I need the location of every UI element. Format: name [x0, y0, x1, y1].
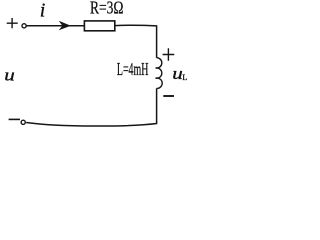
svg-text:L: L [182, 72, 187, 82]
uL polarity − sign [163, 95, 174, 97]
svg-text:i: i [40, 0, 46, 22]
current arrow [59, 21, 71, 31]
resistor R1 body [84, 21, 114, 31]
inductor L1 coil [156, 58, 163, 89]
svg-text:R=3Ω: R=3Ω [90, 0, 124, 18]
wire: inductor to bottom-right corner and bottom wire [26, 88, 156, 126]
uL polarity + sign [163, 48, 175, 61]
svg-text:L=4mH: L=4mH [117, 59, 148, 79]
top terminal node [22, 24, 26, 28]
source negative terminal − sign [9, 118, 20, 120]
wire: top terminal to resistor [26, 25, 84, 27]
wire: resistor to top-right corner, down to inductor [115, 25, 157, 57]
source positive terminal + sign [7, 18, 18, 28]
svg-text:u: u [4, 67, 15, 85]
svg-text:u: u [172, 65, 183, 83]
bottom terminal node [21, 120, 25, 124]
